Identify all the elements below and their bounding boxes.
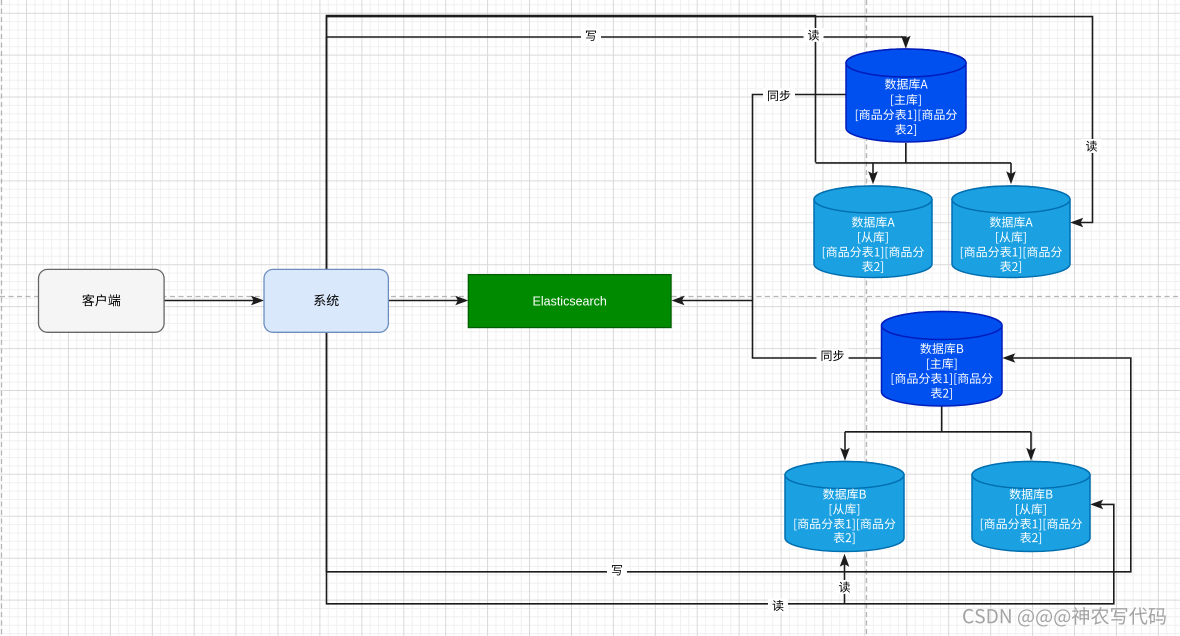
page boundary dashed vertical middle: [866, 0, 868, 636]
label 数据库A 从库1: [852, 217, 895, 228]
database cylinder 数据库A 从库1: [814, 186, 932, 278]
page boundary dashed vertical left: [1, 0, 3, 636]
label 客户端: [82, 294, 120, 306]
wire replication B arrow into 从库B2: [1030, 432, 1032, 455]
wire replication A trunk: [816, 143, 1012, 163]
label 数据库A 主库: [885, 79, 928, 90]
wire 读 top-B from 系统 to 从库A2: [327, 17, 1093, 270]
database cylinder 数据库A 主库: [846, 49, 966, 142]
database cylinder 数据库B 主库: [882, 311, 1003, 406]
label 读 right: [1082, 139, 1102, 153]
wire replication A arrow into 从库A2: [1010, 163, 1012, 178]
watermark CSDN @@@神农写代码: [963, 607, 1166, 626]
wire 同步 trunk from 主库A to 主库B: [753, 95, 882, 359]
wire 写 top from 系统 to 主库A: [327, 37, 906, 269]
label 数据库B 从库1: [823, 489, 866, 500]
wire 写 bottom from 系统 to 主库B: [327, 332, 1131, 571]
wire 读 top-A from 系统 to replication junction: [327, 16, 816, 270]
node Elasticsearch box: [468, 275, 671, 328]
database cylinder 数据库A 从库2: [952, 186, 1070, 278]
wire replication A arrow into 从库A1: [872, 163, 874, 178]
label 系统: [314, 294, 339, 306]
node 系统 box: [264, 269, 388, 332]
wire 读 bottom from 系统 to 从库B2: [327, 332, 1114, 603]
database cylinder 数据库B 从库1: [785, 462, 904, 552]
wire 同步 branch into Elasticsearch: [678, 300, 753, 302]
label 同步 A: [763, 89, 795, 103]
database cylinder 数据库B 从库2: [972, 462, 1090, 552]
label 写 top: [581, 29, 601, 43]
wire 系统 to Elasticsearch: [389, 300, 462, 302]
label 写 bottom: [607, 563, 627, 577]
label 数据库B 从库2: [1010, 489, 1053, 500]
node 客户端 box: [39, 269, 165, 332]
wire replication B arrow into 从库B1: [844, 432, 846, 455]
label 读 top: [804, 28, 824, 42]
wire 读 bottom branch into 从库B1: [844, 561, 846, 604]
label 数据库B 主库: [920, 343, 963, 354]
page boundary dashed horizontal: [0, 296, 1180, 298]
label 读 bottom middle: [835, 580, 855, 594]
wire replication B trunk: [845, 406, 1031, 432]
label 同步 B: [817, 349, 849, 363]
label 数据库A 从库2: [990, 217, 1033, 228]
svg-text:Elasticsearch: Elasticsearch: [533, 294, 607, 308]
label 读 bottom left: [768, 599, 788, 613]
wire 客户端 to 系统: [165, 300, 258, 302]
